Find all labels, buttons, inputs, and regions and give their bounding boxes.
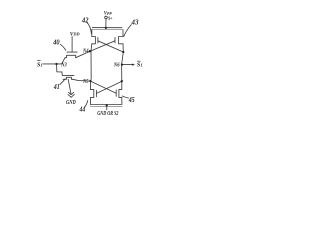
wire VPP terminal lead xyxy=(105,19,107,28)
arrowhead output S1 xyxy=(132,64,135,66)
leader line 42 xyxy=(87,22,92,34)
node dot right latch xyxy=(121,80,123,82)
transistor 42 channel xyxy=(92,37,96,44)
node dot rail xyxy=(105,27,107,29)
wire bottom rail xyxy=(90,97,122,104)
leader line 44 xyxy=(85,101,88,108)
svg-text:N3: N3 xyxy=(61,62,67,69)
transistor 42 gate bar xyxy=(97,37,99,43)
svg-text:41: 41 xyxy=(53,83,60,91)
wire N6 output arrow line xyxy=(122,64,133,66)
wire 41 source to ground xyxy=(68,79,71,94)
wire N4 to N5 vertical xyxy=(90,51,93,81)
transistor 44 channel xyxy=(91,90,94,98)
transistor 45 gate bar xyxy=(115,90,117,96)
transistor 43 channel xyxy=(119,37,124,44)
wire gate44 to right latch node xyxy=(96,81,121,93)
wire right vertical rail to 43 xyxy=(122,30,124,37)
wire N5 to bottom latch xyxy=(90,81,92,90)
transistor 44 gate bar xyxy=(95,90,97,96)
node dot N3 xyxy=(55,63,57,65)
node dot gate42 junction xyxy=(122,51,124,53)
transistor 41 channel xyxy=(63,77,73,79)
svg-text:42: 42 xyxy=(81,16,89,24)
svg-text:VDD: VDD xyxy=(70,31,80,37)
svg-text:S1: S1 xyxy=(37,61,43,68)
wire 42 to N4 xyxy=(90,44,93,51)
ground symbol arrow xyxy=(68,94,74,97)
svg-text:40: 40 xyxy=(52,38,60,46)
node dot N4 xyxy=(89,50,91,52)
node dot N6 xyxy=(121,63,123,65)
wire 40 left lead down to input line xyxy=(62,58,65,64)
svg-text:44: 44 xyxy=(79,106,86,114)
leader line 43 xyxy=(124,25,131,37)
output S1 overbar xyxy=(137,60,140,62)
svg-text:GND: GND xyxy=(66,100,76,106)
svg-text:S1: S1 xyxy=(137,62,143,69)
wire VDD lead xyxy=(71,36,73,52)
input S1 overbar xyxy=(37,60,40,62)
wire 43 to N6 xyxy=(122,44,124,65)
wire top rail xyxy=(92,27,122,29)
wire S1 input line xyxy=(43,63,62,65)
svg-text:N6: N6 xyxy=(113,62,120,69)
leader line 41 xyxy=(60,79,66,85)
wire left vertical rail to 42 xyxy=(91,30,93,37)
svg-text:43: 43 xyxy=(131,18,139,26)
wire bottom rail stub xyxy=(106,105,108,110)
svg-text:N5: N5 xyxy=(82,78,88,85)
transistor 43 gate bar xyxy=(114,37,116,43)
node dot N5 xyxy=(89,80,91,82)
wire gate42 to N6 junction xyxy=(98,41,123,52)
svg-text:9+: 9+ xyxy=(108,16,112,22)
node dot bottom rail xyxy=(106,104,108,106)
transistor 40 gate bar xyxy=(67,51,77,53)
wire N3 zigzag to gate 41 xyxy=(57,64,63,75)
wire 40 drain lead to N4 xyxy=(76,51,90,57)
wire bottom rail ghost line xyxy=(90,105,122,107)
svg-text:45: 45 xyxy=(128,96,135,104)
transistor 41 gate bar xyxy=(62,74,74,76)
wire N6 to bottom latch xyxy=(121,65,123,90)
leader line 40 xyxy=(60,44,66,50)
svg-text:GND OR S2: GND OR S2 xyxy=(97,111,118,117)
wire 41 drain lead to N5 xyxy=(73,79,91,81)
wire top rail ghost line xyxy=(92,29,123,31)
transistor 45 channel xyxy=(119,89,122,97)
svg-text:N4: N4 xyxy=(82,48,88,55)
leader line 45 xyxy=(122,96,128,98)
terminal circle VPP xyxy=(105,16,108,19)
transistor 40 channel xyxy=(65,55,76,57)
wire gate45 to N5 xyxy=(91,81,117,93)
wire gate43 to N4 xyxy=(90,41,115,51)
